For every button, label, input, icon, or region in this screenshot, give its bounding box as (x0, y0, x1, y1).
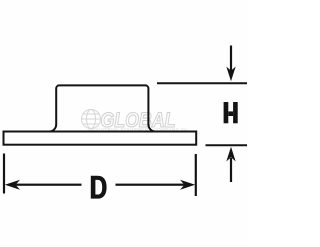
watermark globe icon (82, 110, 101, 129)
H dimension bottom line (206, 144, 248, 146)
H label (224, 102, 238, 123)
H up arrow (226, 147, 235, 182)
D left extension line (3, 154, 5, 194)
D dimension line left segment with left arrow (5, 180, 82, 190)
D right extension line (195, 154, 197, 196)
H down arrow (226, 46, 235, 82)
base plate rectangle (4, 132, 197, 145)
D dimension line right segment with right arrow (116, 180, 196, 190)
D label (91, 176, 107, 199)
H dimension top line (157, 82, 247, 84)
raised hub outline (top-hat) with bottom fillets (49, 85, 155, 131)
